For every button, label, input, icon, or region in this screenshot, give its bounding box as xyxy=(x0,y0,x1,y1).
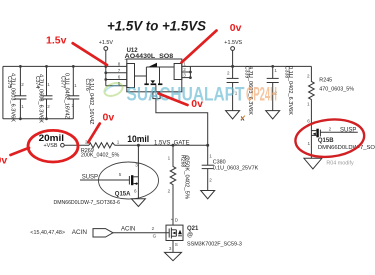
svg-text:0.1U_0603_25V7K: 0.1U_0603_25V7K xyxy=(213,165,259,171)
svg-text:+1.5V to +1.5VS: +1.5V to +1.5VS xyxy=(107,19,206,35)
svg-text:8: 8 xyxy=(118,61,121,66)
annotation: 1.5v with leader xyxy=(46,34,107,65)
mosfet U12 AO4430L_SO8 xyxy=(118,48,186,99)
capacitor C377 xyxy=(60,65,80,119)
svg-text:200K_0402_5%: 200K_0402_5% xyxy=(81,153,120,159)
svg-text:1: 1 xyxy=(21,104,24,109)
svg-text:2: 2 xyxy=(183,67,186,72)
svg-text:G: G xyxy=(153,234,157,239)
transistor Q15B xyxy=(307,119,375,159)
svg-text:1: 1 xyxy=(307,102,310,107)
capacitor C380 xyxy=(202,145,259,190)
svg-text:D: D xyxy=(175,218,179,223)
svg-text:0.1U_0402_16V4Z: 0.1U_0402_16V4Z xyxy=(64,73,70,119)
svg-text:4.7U_0603_6.3V6K: 4.7U_0603_6.3V6K xyxy=(38,74,44,124)
svg-text:SUACHUALAPT: SUACHUALAPT xyxy=(127,85,245,106)
transistor Q15A xyxy=(54,145,139,206)
svg-text:2: 2 xyxy=(21,82,24,87)
ground (Q15B) xyxy=(304,158,322,169)
capacitor C375 xyxy=(6,65,27,123)
svg-text:470_0603_5%: 470_0603_5% xyxy=(319,87,354,93)
svg-text:0.1U_0402_6.3V6K: 0.1U_0402_6.3V6K xyxy=(287,66,293,116)
svg-text:2: 2 xyxy=(168,189,171,194)
svg-text:+1.5VS: +1.5VS xyxy=(224,40,242,46)
node +VSB xyxy=(44,143,90,149)
svg-text:6: 6 xyxy=(118,75,121,80)
svg-text:1: 1 xyxy=(74,83,77,88)
wire: left vertical edge xyxy=(2,66,4,118)
power +1.5VS xyxy=(224,40,242,68)
capacitor C338 xyxy=(267,65,294,116)
svg-text:OP24H: OP24H xyxy=(246,85,277,106)
svg-text:@: @ xyxy=(187,233,193,239)
net label SUSP (Q15B gate) xyxy=(320,127,357,133)
svg-text:0v: 0v xyxy=(0,155,7,167)
svg-text:SUSP: SUSP xyxy=(82,174,98,180)
svg-text:R04 modify: R04 modify xyxy=(326,160,354,166)
svg-text:*: * xyxy=(171,218,173,223)
svg-text:2: 2 xyxy=(72,103,75,108)
power +1.5V xyxy=(99,40,114,68)
annotation: 0v at U12 pin4 with leader xyxy=(159,94,204,110)
svg-text:2: 2 xyxy=(227,71,230,76)
capacitor C339 xyxy=(227,66,254,116)
svg-text:2: 2 xyxy=(47,104,50,109)
svg-text:@50K_0402_5%: @50K_0402_5% xyxy=(183,155,189,200)
wire: U12 source pin bus xyxy=(104,66,126,85)
svg-text:10mil: 10mil xyxy=(127,134,149,145)
svg-text:ACIN: ACIN xyxy=(121,227,135,233)
annotation: 0v at left edge with leader xyxy=(0,148,29,167)
svg-text:0.1U_0402_16V4Z: 0.1U_0402_16V4Z xyxy=(88,79,94,125)
svg-text:1.5v: 1.5v xyxy=(46,34,67,46)
annotation: red ellipse around 20mil/+VSB xyxy=(28,130,78,162)
wire: +1.5V top rail xyxy=(3,65,127,67)
svg-text:6: 6 xyxy=(307,119,310,124)
svg-text:Q15B: Q15B xyxy=(318,138,334,144)
svg-text:DMN66D0LDW-7_SOT363-6: DMN66D0LDW-7_SOT363-6 xyxy=(54,200,121,206)
svg-text:2: 2 xyxy=(209,178,212,183)
wire: U12 pin4 to gate node xyxy=(156,99,209,147)
annotation: ellipse around Q15A xyxy=(99,162,159,199)
wire: bottom return rail xyxy=(3,118,73,120)
svg-text:0v: 0v xyxy=(103,112,115,124)
resistor R269 xyxy=(81,139,140,158)
svg-text:3: 3 xyxy=(135,163,138,168)
svg-text:7: 7 xyxy=(118,68,121,73)
ground (Q21) xyxy=(165,241,182,261)
svg-text:5: 5 xyxy=(119,172,122,177)
svg-text:2: 2 xyxy=(307,73,310,78)
transistor Q21 xyxy=(152,210,242,251)
svg-text:1: 1 xyxy=(47,82,50,87)
capacitor C376 (labels, symbol off-grid) xyxy=(84,79,94,125)
net label SUSP (Q15A gate) xyxy=(80,174,129,180)
svg-text:+1.5V: +1.5V xyxy=(99,40,114,46)
svg-text:2: 2 xyxy=(152,226,155,231)
svg-text:ACIN: ACIN xyxy=(72,229,88,236)
svg-text:Q21: Q21 xyxy=(187,226,199,232)
svg-text:S: S xyxy=(175,242,178,247)
wire: 1.5VS_GATE net xyxy=(138,141,207,147)
annotation: 0v top right with leader xyxy=(182,22,242,63)
wire: U12 drain pins to +1.5VS rail xyxy=(182,66,312,79)
U12 internal mosfet symbol xyxy=(145,67,147,84)
resistor R268 xyxy=(168,144,190,225)
ground (C380) xyxy=(201,191,215,199)
svg-text:1: 1 xyxy=(308,141,311,146)
svg-text:DMN66D0LDW-7_SO: DMN66D0LDW-7_SO xyxy=(318,145,375,151)
annotation: red ellipse around Q15B xyxy=(294,116,366,160)
svg-text:R245: R245 xyxy=(319,78,332,84)
ground (C339) xyxy=(226,111,240,119)
svg-text:1: 1 xyxy=(168,156,171,161)
svg-text:6: 6 xyxy=(134,188,137,193)
svg-text:2: 2 xyxy=(329,126,332,131)
capacitor C374 xyxy=(34,65,53,124)
svg-text:SUSP: SUSP xyxy=(340,127,356,133)
annotation: 0v at R269 with leader xyxy=(88,112,114,143)
svg-text:SSM3K7002F_SC59-3: SSM3K7002F_SC59-3 xyxy=(187,241,242,247)
ground (Q15A) xyxy=(131,199,145,207)
svg-text:20mil: 20mil xyxy=(39,133,65,144)
svg-text:3: 3 xyxy=(169,246,172,251)
svg-text:1: 1 xyxy=(274,68,277,73)
svg-text:0v: 0v xyxy=(191,98,203,110)
ground (C338) xyxy=(266,111,280,119)
signal ACIN input xyxy=(30,227,169,237)
svg-text:Q15A: Q15A xyxy=(115,192,131,198)
watermark text xyxy=(127,85,278,106)
svg-text:1: 1 xyxy=(209,154,212,159)
svg-text:<15,40,47,48>: <15,40,47,48> xyxy=(30,230,65,236)
watermark logo swirl xyxy=(103,81,125,99)
svg-text:0v: 0v xyxy=(230,22,242,34)
resistor R245 xyxy=(307,66,354,128)
svg-text:3: 3 xyxy=(183,73,186,78)
svg-text:1: 1 xyxy=(117,139,120,144)
svg-text:4.7U_0603_6.3V6K: 4.7U_0603_6.3V6K xyxy=(10,73,16,123)
